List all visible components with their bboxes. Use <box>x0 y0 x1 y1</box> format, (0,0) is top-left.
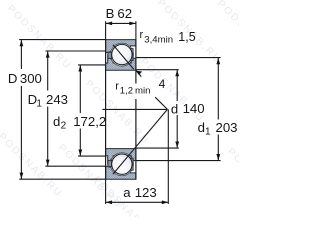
svg-text:d: d <box>198 120 205 135</box>
svg-text:r: r <box>140 29 144 41</box>
svg-text:r: r <box>115 81 119 93</box>
inner ring (top section) <box>106 55 136 70</box>
d bore bottom extension <box>136 147 179 149</box>
D bottom extension <box>19 178 105 180</box>
D1 dimension line <box>47 51 49 91</box>
raceway clearance (top section) <box>110 43 133 66</box>
d1 dimension line <box>217 58 219 120</box>
d2 dimension line <box>79 65 81 113</box>
svg-text:1,2: 1,2 <box>120 86 133 97</box>
svg-text:123: 123 <box>135 185 157 200</box>
svg-text:300: 300 <box>20 71 42 86</box>
d1 bottom extension <box>136 160 221 162</box>
axis centerline <box>102 108 167 110</box>
D1 dimension: top extension <box>45 50 105 52</box>
a right extension from pressure point <box>167 109 169 203</box>
svg-text:203: 203 <box>216 120 238 135</box>
outer ring (top section) <box>106 40 136 53</box>
D dimension (left): top extension <box>19 39 105 41</box>
r1,2 leader <box>136 71 141 77</box>
svg-text:B: B <box>106 6 115 21</box>
svg-text:172,2: 172,2 <box>73 114 106 129</box>
contact angle line (bottom) <box>113 109 167 174</box>
bearing left face line <box>105 40 107 180</box>
D1 bottom extension <box>45 165 105 167</box>
a dimension line <box>106 201 169 203</box>
svg-text:D: D <box>8 71 18 86</box>
a left extension (bearing face continued) <box>105 180 107 204</box>
ball (top section) <box>112 44 132 64</box>
svg-text:1: 1 <box>36 99 42 110</box>
d2 bottom extension <box>78 155 106 157</box>
svg-text:PODSNAB.RU: PODSNAB.RU <box>225 146 239 215</box>
cage pieces (bottom section) <box>108 160 112 166</box>
svg-text:a: a <box>123 185 131 200</box>
svg-text:d: d <box>53 114 60 129</box>
svg-text:2: 2 <box>61 121 67 132</box>
svg-text:PODSNAB.RU: PODSNAB.RU <box>5 3 74 72</box>
svg-text:62: 62 <box>117 6 132 21</box>
d dimension line <box>176 70 178 101</box>
d dimension: bore top extension <box>136 69 179 71</box>
svg-text:140: 140 <box>183 101 205 116</box>
d2 dimension: top extension <box>78 64 106 66</box>
D dimension line <box>20 40 22 69</box>
cage pieces (top section) <box>108 52 112 58</box>
inner ring (bottom section) <box>106 149 136 164</box>
svg-text:1: 1 <box>205 127 211 138</box>
svg-text:4: 4 <box>159 77 166 91</box>
svg-text:3,4min: 3,4min <box>144 34 173 45</box>
raceway clearance (bottom section) <box>110 153 133 176</box>
outer ring (bottom section) <box>106 166 136 179</box>
svg-text:1,5: 1,5 <box>178 30 195 44</box>
contact angle line (top) <box>113 45 134 70</box>
B dimension: extension lines above <box>105 21 107 39</box>
bearing cross-section: top half <box>106 40 136 71</box>
svg-text:d: d <box>171 101 178 116</box>
ball (bottom section) <box>112 154 132 174</box>
d1 dimension (right): top extension <box>136 57 221 59</box>
bearing cross-section: bottom half (mirror) <box>106 149 136 180</box>
bearing right face line <box>135 40 137 84</box>
svg-text:243: 243 <box>46 92 68 107</box>
B dimension line <box>106 22 136 24</box>
svg-text:min: min <box>135 86 150 97</box>
